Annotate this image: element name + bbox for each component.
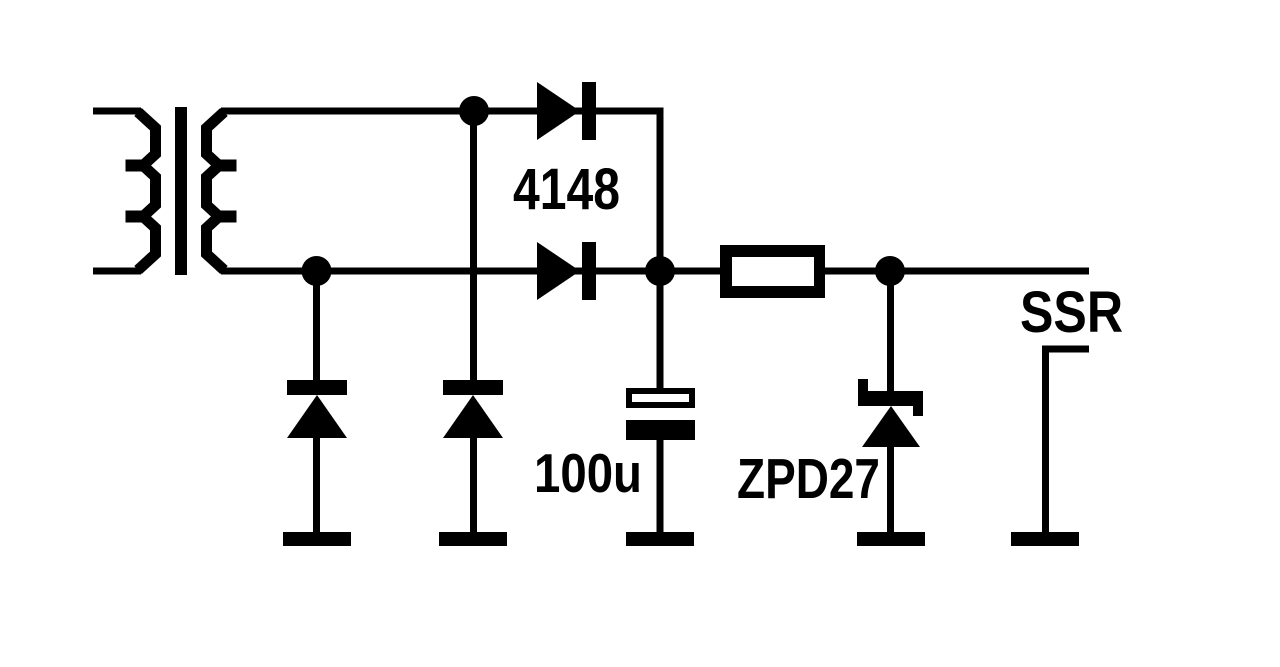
diode D3 xyxy=(287,271,347,532)
zener D5 xyxy=(858,271,923,532)
svg-text:4148: 4148 xyxy=(513,157,620,222)
ground G5 xyxy=(1011,532,1079,546)
wire bottom rail xyxy=(221,268,1089,275)
ground G1 xyxy=(283,532,351,546)
diode D1 xyxy=(537,82,596,140)
node N1 xyxy=(459,96,489,126)
transformer T1 primary winding xyxy=(93,111,156,271)
svg-text:100u: 100u xyxy=(534,442,642,504)
node N2 xyxy=(302,256,332,286)
transformer T1 core xyxy=(175,107,187,275)
wire V1 xyxy=(470,111,477,381)
capacitor C1 xyxy=(626,388,695,532)
node N3 xyxy=(645,256,675,286)
svg-text:SSR: SSR xyxy=(1020,280,1123,345)
ground G3 xyxy=(626,532,694,546)
diode D2 xyxy=(537,242,596,300)
SSR terminal bracket xyxy=(1042,346,1089,536)
node N4 xyxy=(875,256,905,286)
ground G2 xyxy=(439,532,507,546)
ground G4 xyxy=(857,532,925,546)
svg-text:ZPD27: ZPD27 xyxy=(737,447,880,510)
transformer T1 secondary winding xyxy=(207,112,237,270)
wire V2 xyxy=(657,108,664,389)
resistor R1 xyxy=(720,245,825,298)
diode D4 xyxy=(443,380,503,532)
wire top rail xyxy=(221,108,664,115)
